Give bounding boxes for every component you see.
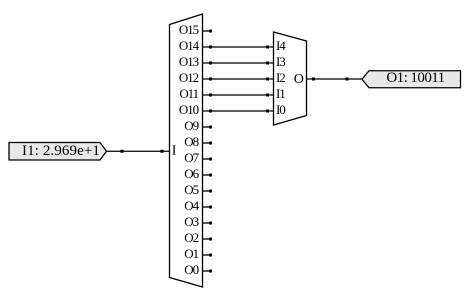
svg-text:I1: I1 (276, 86, 285, 101)
svg-text:O11: O11 (179, 86, 198, 101)
svg-text:O0: O0 (184, 262, 198, 277)
svg-text:O8: O8 (184, 134, 198, 149)
svg-text:O1: O1 (184, 246, 198, 261)
svg-text:I1: 2.969e+1: I1: 2.969e+1 (22, 143, 100, 159)
svg-text:O: O (294, 72, 304, 87)
svg-text:O15: O15 (179, 22, 199, 37)
svg-text:O9: O9 (184, 118, 198, 133)
svg-text:O12: O12 (179, 70, 199, 85)
svg-text:O5: O5 (184, 182, 198, 197)
svg-text:O10: O10 (179, 102, 199, 117)
svg-text:O14: O14 (179, 38, 200, 53)
svg-text:O13: O13 (179, 54, 199, 69)
svg-text:O6: O6 (184, 166, 199, 181)
svg-text:O2: O2 (184, 230, 198, 245)
svg-text:O7: O7 (184, 150, 199, 165)
svg-text:I2: I2 (276, 70, 285, 85)
svg-text:I0: I0 (276, 102, 285, 117)
svg-text:I: I (172, 144, 177, 159)
svg-text:O3: O3 (184, 214, 198, 229)
svg-text:O4: O4 (184, 198, 199, 213)
svg-text:I3: I3 (276, 54, 285, 69)
svg-text:O1: 10011: O1: 10011 (386, 70, 444, 86)
